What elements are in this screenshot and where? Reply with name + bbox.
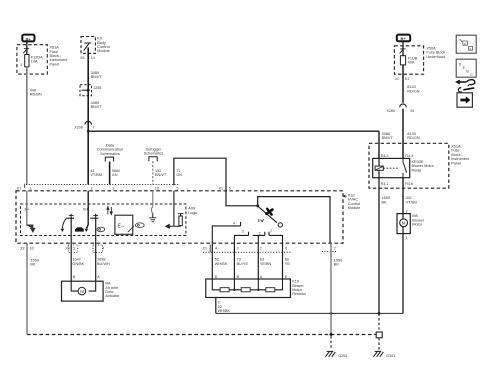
svg-text:X5: X5 (80, 56, 84, 60)
module ground drop dashed (330, 336, 332, 350)
71 GN input with pull-up resistor (173, 191, 175, 227)
svg-text:G204: G204 (338, 354, 347, 358)
wire 341 VT/BN to blower motor (402, 178, 404, 214)
svg-text:2: 2 (259, 231, 261, 235)
wire 1698 to pin X3 4 (95, 218, 97, 281)
svg-text:K1: K1 (405, 77, 409, 81)
svg-text:5: 5 (176, 187, 178, 191)
svg-text:GN: GN (112, 173, 118, 177)
wire B+ to fuse block (26, 41, 28, 54)
ground terminal square (376, 332, 382, 338)
svg-text:3: 3 (242, 230, 244, 234)
actuator motor (71, 281, 96, 291)
resistor element 3 (266, 288, 275, 292)
svg-text:Panel: Panel (50, 62, 60, 66)
svg-text:VT/BM: VT/BM (90, 173, 102, 177)
svg-text:4: 4 (215, 246, 217, 250)
svg-text:G301: G301 (386, 354, 395, 358)
svg-text:BK: BK (30, 263, 36, 267)
wire BCM output (87, 48, 89, 185)
svg-text:Module: Module (348, 206, 360, 210)
svg-text:R4.3: R4.3 (405, 154, 413, 158)
svg-text:X1: X1 (17, 187, 21, 191)
fan icon (265, 207, 275, 217)
motor ground wire (402, 234, 404, 314)
svg-text:BN/VT: BN/VT (155, 173, 167, 177)
wire 1647 to pin X3 5 (70, 218, 72, 281)
svg-text:o: o (464, 42, 466, 46)
switch contact 2 (253, 232, 265, 244)
splice J255 (80, 85, 92, 96)
connector X1 bottom dotted line (203, 251, 291, 253)
detent mark (259, 219, 264, 222)
nav icon next arrow (457, 93, 472, 107)
svg-text:14: 14 (91, 56, 95, 60)
svg-text:Schematics: Schematics (100, 152, 120, 156)
svg-text:BN/VT: BN/VT (91, 75, 103, 79)
svg-text:1: 1 (270, 229, 272, 233)
defrost switch (90, 217, 98, 219)
svg-text:Module: Module (97, 49, 109, 53)
svg-text:X2: X2 (20, 246, 24, 250)
svg-text:5: 5 (73, 246, 75, 250)
relay switch blade (403, 158, 407, 177)
svg-text:BK: BK (334, 263, 340, 267)
serial data arrows (107, 207, 109, 215)
svg-text:2: 2 (91, 187, 93, 191)
svg-text:2: 2 (334, 246, 336, 250)
ground G204 (325, 351, 335, 356)
K33 HVAC Control Module dashed box (16, 191, 343, 243)
svg-text:GN: GN (176, 173, 182, 177)
KR33E Blower Motor Relay (373, 158, 410, 177)
svg-text:6: 6 (285, 246, 287, 250)
wire 1550 BK relay ground (378, 178, 380, 314)
wire 8143 RD/GN (402, 65, 404, 103)
recirc car icon (75, 227, 84, 231)
svg-text:10A: 10A (31, 60, 38, 64)
svg-text:WH/BK: WH/BK (215, 262, 228, 266)
A99 Logic dashed box (21, 204, 186, 236)
ground G301 (373, 351, 383, 356)
wire 440 RD/BN (26, 67, 28, 185)
switch contact 4 (212, 222, 240, 243)
relay ground drop dashed (378, 313, 380, 332)
svg-text:J255: J255 (93, 86, 101, 90)
svg-text:40A: 40A (408, 61, 415, 65)
wire branch to blower relay coil (88, 130, 379, 132)
svg-text:BU/WH: BU/WH (97, 262, 110, 266)
connector X1 dotted line (module top) (26, 184, 180, 186)
ground bus wire (216, 312, 403, 314)
svg-text:Relay: Relay (412, 168, 422, 172)
svg-text:RD/BN: RD/BN (30, 93, 42, 97)
svg-text:Actuator: Actuator (105, 294, 120, 298)
svg-text:BU/YE: BU/YE (237, 262, 249, 266)
nav icon component views (456, 59, 476, 77)
wire 52 WH/BK (211, 243, 213, 279)
svg-text:2: 2 (260, 246, 262, 250)
svg-text:Motor: Motor (412, 223, 422, 227)
defrost icon (97, 227, 105, 232)
wire 71 GN staple jumper (174, 158, 226, 191)
svg-text:GN/BK: GN/BK (72, 262, 84, 266)
svg-text:Underhood: Underhood (426, 55, 445, 59)
svg-text:5: 5 (229, 187, 231, 191)
relay coil (375, 166, 383, 170)
ground symbol inside module (149, 218, 156, 222)
svg-text:YE/BN: YE/BN (260, 262, 272, 266)
blower switch blade (258, 207, 277, 223)
X51A fuse block (relay) dashed box (369, 143, 449, 188)
defogger switch to ground (151, 191, 152, 213)
Defogger Schematics tag (144, 147, 164, 161)
blower switch rail to ground pin (258, 197, 330, 244)
svg-text:BN/VT: BN/VT (382, 136, 394, 140)
M8 Blower Motor (397, 214, 410, 234)
svg-text:10: 10 (30, 246, 34, 250)
resistor element 1 (220, 288, 229, 292)
svg-text:E--: E-- (118, 224, 125, 230)
fuse block X51A dashed box (17, 45, 47, 74)
wire 73 BU/YE (233, 243, 235, 279)
svg-text:4: 4 (233, 221, 235, 225)
oval indicator icon (135, 223, 144, 228)
junction (256, 204, 259, 207)
wire 1550 BK module ground (330, 243, 332, 334)
resistor element 2 (241, 288, 250, 292)
svg-text:3: 3 (112, 187, 114, 191)
fuse F12DA 10A (25, 55, 29, 67)
blower switch feed wire (226, 191, 258, 206)
svg-text:Panel: Panel (451, 161, 461, 165)
wire 192 BN/VT (152, 161, 154, 184)
svg-text:X2: X2 (395, 77, 399, 81)
svg-text:BK: BK (382, 200, 388, 204)
svg-text:YE: YE (285, 262, 291, 266)
svg-text:BN/VT: BN/VT (91, 105, 103, 109)
svg-text:D: D (215, 275, 218, 279)
svg-text:3: 3 (237, 246, 239, 250)
wire 60 YE (282, 243, 284, 279)
K10 Blower Motor Resistor box (206, 279, 291, 298)
svg-text:RD/GN: RD/GN (407, 136, 419, 140)
svg-text:1: 1 (30, 187, 32, 191)
svg-text:X3: X3 (65, 246, 69, 250)
svg-text:1: 1 (406, 236, 408, 240)
switch contact 3 (234, 232, 248, 244)
svg-text:R4.1: R4.1 (381, 182, 389, 186)
svg-text:R4.6: R4.6 (405, 182, 413, 186)
M4 Air Inlet Door Actuator (62, 281, 104, 301)
svg-text:X1: X1 (203, 246, 207, 250)
module ground pin (322, 250, 337, 252)
B+ battery feed symbol (top right) (397, 35, 410, 42)
svg-text:Logic: Logic (188, 211, 197, 215)
recirculation switch (62, 219, 66, 229)
svg-text:34: 34 (410, 109, 414, 113)
wire 8143 RD/GN lower (402, 109, 404, 159)
svg-text:X208: X208 (74, 126, 82, 130)
svg-text:X1: X1 (219, 187, 223, 191)
fuse F1UB 40A (400, 56, 405, 65)
svg-text:7: 7 (93, 126, 95, 130)
svg-text:M: M (402, 221, 406, 226)
display icon (115, 215, 133, 234)
connector clip X51A (23, 49, 29, 54)
connector clip X50A (400, 49, 406, 54)
svg-text:Resistor: Resistor (292, 292, 307, 296)
svg-text:M: M (80, 289, 84, 294)
wire 3486 BN/VT to relay coil (378, 131, 380, 158)
svg-text:C: C (218, 301, 221, 305)
wire 63 YE/BN (257, 243, 259, 279)
K9 Body Control Module dashed box (81, 37, 95, 54)
fuse block X50A dashed box (394, 46, 423, 74)
svg-text:B+: B+ (26, 36, 32, 41)
svg-text:R4.2: R4.2 (381, 154, 389, 158)
svg-text:RD/GN: RD/GN (407, 89, 419, 93)
svg-text:1: 1 (20, 63, 22, 67)
svg-text:X280: X280 (387, 109, 395, 113)
svg-text:B+: B+ (401, 36, 407, 41)
BCM high side driver symbol (84, 43, 92, 51)
svg-text:VT/BN: VT/BN (406, 200, 417, 204)
wire 1550 BK left (module X2-10) (26, 243, 28, 334)
ground distribution dashed line (27, 334, 376, 336)
Data Communication Schematics tag (97, 143, 123, 161)
wire 5860 GN (109, 162, 111, 185)
svg-text:2: 2 (406, 209, 408, 213)
inline connector X208 pin 7 (85, 121, 92, 124)
switch contact 1 (269, 232, 283, 244)
inline connector X280 pin 34 (400, 104, 407, 107)
svg-text:10: 10 (155, 187, 159, 191)
B+ battery feed symbol (top left) (22, 35, 34, 42)
nav icon diagnostic (arrow and wrench) (455, 80, 474, 92)
svg-text:WH/BK: WH/BK (218, 309, 231, 313)
svg-text:Schematics: Schematics (144, 152, 164, 156)
resistor internal wiring (212, 279, 282, 290)
resistor A99 pull-up (179, 216, 182, 226)
coil-switch dashed link (383, 167, 399, 169)
nav icon connector views (456, 35, 476, 53)
